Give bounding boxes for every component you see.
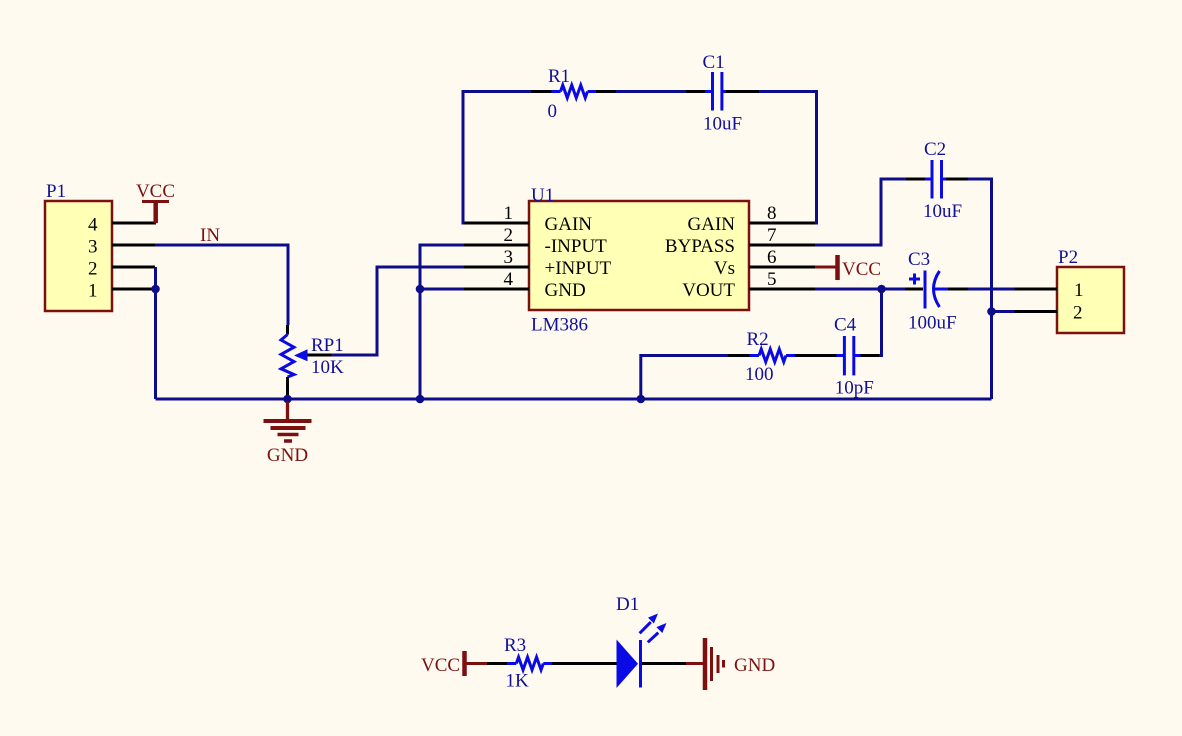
- ground GND below RP1: [264, 402, 312, 466]
- connector P2: [1057, 247, 1124, 333]
- wire C1 down to U1 pin 8: [759, 92, 817, 224]
- svg-text:C3: C3: [908, 249, 930, 270]
- svg-text:1: 1: [88, 281, 98, 302]
- LED D1: [616, 594, 686, 688]
- wire RP1 wiper to U1 pin 3: [332, 267, 465, 355]
- svg-text:GND: GND: [267, 445, 308, 466]
- wire P1 pin 2 down to ground rail: [154, 267, 157, 399]
- ground rail wire: [156, 398, 992, 401]
- svg-text:10uF: 10uF: [703, 114, 742, 135]
- svg-text:5: 5: [767, 269, 777, 290]
- junction at U1 pin 4 branch: [416, 285, 425, 294]
- svg-text:GAIN: GAIN: [545, 214, 593, 235]
- P1 pin 3: [88, 237, 155, 258]
- U1 pin 1 GAIN: [464, 203, 592, 235]
- power VCC at R3: [421, 651, 487, 676]
- svg-text:LM386: LM386: [531, 315, 588, 336]
- wire C3 to P2 pin 1: [968, 288, 1015, 291]
- svg-text:C4: C4: [834, 315, 857, 336]
- svg-text:10K: 10K: [311, 357, 344, 378]
- wire C2 down right side to ground rail: [968, 179, 992, 399]
- svg-text:-INPUT: -INPUT: [545, 236, 608, 257]
- svg-text:U1: U1: [531, 185, 554, 206]
- svg-text:1: 1: [1074, 280, 1084, 301]
- capacitor C4: [834, 315, 879, 399]
- potentiometer RP1: [281, 325, 344, 399]
- svg-text:IN: IN: [200, 225, 220, 246]
- svg-text:GND: GND: [545, 280, 586, 301]
- net label IN: [200, 225, 220, 246]
- svg-text:100: 100: [745, 364, 774, 385]
- wire U1 pin 1 up to R1: [463, 92, 531, 224]
- P1 pin 1: [88, 281, 155, 302]
- svg-text:R2: R2: [747, 329, 769, 350]
- svg-text:C2: C2: [924, 139, 946, 160]
- resistor R1: [531, 66, 616, 122]
- wire net IN from P1 pin 3 to RP1: [155, 245, 288, 325]
- wire U1 pin 2 to ground rail: [420, 245, 464, 399]
- svg-text:8: 8: [767, 203, 777, 224]
- svg-text:2: 2: [504, 225, 514, 246]
- U1 pin 7 BYPASS: [665, 225, 815, 257]
- svg-text:VCC: VCC: [842, 259, 881, 280]
- svg-text:4: 4: [504, 269, 514, 290]
- svg-text:GAIN: GAIN: [688, 214, 736, 235]
- op-amp U1 LM386: [529, 185, 749, 336]
- svg-text:0: 0: [548, 101, 558, 122]
- svg-text:2: 2: [1073, 303, 1083, 324]
- wire U1 pin 7 up to C2: [815, 179, 906, 245]
- svg-text:100uF: 100uF: [908, 313, 957, 334]
- connector P1: [45, 181, 112, 311]
- svg-text:+INPUT: +INPUT: [545, 258, 612, 279]
- U1 pin 2 -INPUT: [464, 225, 607, 257]
- U1 pin 4 GND: [464, 269, 586, 301]
- U1 pin 8 GAIN: [688, 203, 816, 235]
- wire stub to U1 pin 4: [420, 288, 464, 291]
- power VCC at P1 pin 4: [136, 181, 175, 223]
- svg-text:4: 4: [88, 215, 98, 236]
- wire C4 up to VOUT node: [879, 289, 882, 356]
- svg-text:2: 2: [88, 259, 98, 280]
- svg-text:R1: R1: [548, 66, 570, 87]
- svg-text:C1: C1: [703, 52, 725, 73]
- capacitor C3 polarized: [905, 249, 968, 334]
- junction at VOUT node: [877, 285, 886, 294]
- power VCC at U1 pin 6: [815, 255, 881, 280]
- P2 pin 2: [1015, 303, 1083, 324]
- P1 pin 2: [88, 259, 155, 280]
- P1 pin 4: [88, 215, 156, 236]
- junction at P1 pin 1: [151, 285, 160, 294]
- resistor R2: [728, 329, 837, 385]
- capacitor C1: [686, 52, 759, 135]
- wire U1 pin 5 VOUT to C3: [815, 288, 905, 291]
- svg-text:3: 3: [504, 247, 514, 268]
- resistor R3: [487, 635, 578, 692]
- svg-text:VCC: VCC: [136, 181, 175, 202]
- U1 pin 3 +INPUT: [464, 247, 612, 279]
- svg-text:BYPASS: BYPASS: [665, 236, 735, 257]
- svg-text:VOUT: VOUT: [682, 280, 735, 301]
- wire R1 to C1: [616, 90, 686, 93]
- junction RP1 at ground rail: [283, 395, 292, 404]
- U1 pin 5 VOUT: [682, 269, 815, 301]
- capacitor C2: [906, 139, 968, 222]
- svg-text:VCC: VCC: [421, 655, 460, 676]
- U1 pin 6 Vs: [714, 247, 815, 279]
- wire P2 pin 2 to right riser: [992, 310, 1015, 313]
- svg-text:10uF: 10uF: [923, 201, 962, 222]
- svg-text:P2: P2: [1058, 247, 1078, 268]
- junction P2 pin 2 on riser: [987, 307, 996, 316]
- junction zobel branch at rail: [637, 395, 646, 404]
- svg-text:RP1: RP1: [311, 335, 344, 356]
- svg-text:Vs: Vs: [714, 258, 735, 279]
- svg-text:7: 7: [767, 225, 777, 246]
- svg-text:R3: R3: [504, 635, 526, 656]
- svg-text:1: 1: [504, 203, 514, 224]
- svg-text:P1: P1: [46, 181, 66, 202]
- svg-text:6: 6: [767, 247, 777, 268]
- junction at ground rail x420: [416, 395, 425, 404]
- svg-text:1K: 1K: [506, 671, 530, 692]
- svg-text:3: 3: [88, 237, 98, 258]
- wire R3 to D1: [578, 662, 617, 665]
- P2 pin 1: [1015, 280, 1084, 301]
- wire zobel branch from rail up to R2: [641, 356, 728, 400]
- svg-text:10pF: 10pF: [835, 378, 874, 399]
- svg-text:D1: D1: [616, 594, 639, 615]
- svg-text:GND: GND: [734, 655, 775, 676]
- ground GND at D1 cathode: [686, 638, 775, 690]
